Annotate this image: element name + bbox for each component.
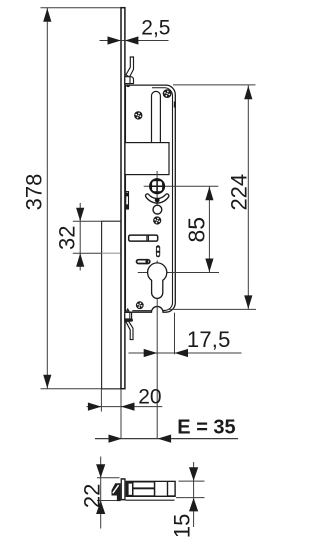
small horizontal capsule <box>137 260 150 264</box>
dimension 20 arrow right <box>88 403 102 411</box>
svg-text:17,5: 17,5 <box>187 327 231 352</box>
section faceplate bar <box>121 478 126 500</box>
section dim 15 bottom extension <box>176 497 205 499</box>
screw upper left <box>134 111 142 119</box>
auxiliary latch bottom cap <box>126 204 129 208</box>
section dim 15 arrow up <box>189 498 198 512</box>
section dim 22 arrow up <box>96 501 105 515</box>
auxiliary latch behind faceplate <box>126 192 129 209</box>
body cell upper slab <box>134 483 154 488</box>
bottom hook block divider <box>129 312 131 318</box>
lock case outline <box>125 85 175 312</box>
dimension 17,5 arrow right <box>144 349 158 357</box>
dimension 32 top extension line <box>73 220 102 222</box>
dimension 17,5 line <box>129 352 242 354</box>
faceplate extension line <box>120 389 122 439</box>
section dim 22 line <box>100 457 102 529</box>
dimension 2,5 arrow right <box>108 36 122 44</box>
screw below hub <box>153 216 161 224</box>
svg-text:224: 224 <box>226 174 251 211</box>
latch slot <box>152 91 161 142</box>
dimension 224 top extension line <box>173 84 256 86</box>
dimension 224 line <box>247 85 249 309</box>
dimension 85 arrow up <box>205 187 213 201</box>
backplate extension line left <box>100 389 102 411</box>
case edge dark notch <box>174 102 176 108</box>
faceplate <box>121 8 125 389</box>
body cell mid <box>155 482 167 496</box>
small vertical capsule <box>156 245 160 257</box>
latch bolt white stripe <box>113 485 119 493</box>
lock case inner wall bottom left <box>132 310 151 312</box>
svg-text:2,5: 2,5 <box>141 17 170 40</box>
dimension 378 bottom extension line <box>41 388 123 390</box>
wishbone pivot dot <box>155 198 160 203</box>
section dim 15 line <box>193 462 195 527</box>
dimension 20 arrow left <box>121 403 135 411</box>
dimension 378 line <box>46 8 48 389</box>
dimension 378 arrow up <box>43 8 51 22</box>
section dim 22 arrow down <box>96 464 105 478</box>
dimension E=35 arrow right <box>109 435 123 443</box>
top hook block <box>125 77 134 84</box>
dimension E=35 arrow left <box>158 435 172 443</box>
euro profile cylinder <box>148 263 167 298</box>
svg-text:E = 35: E = 35 <box>177 416 235 438</box>
top hook block divider <box>129 77 131 84</box>
faceplate bar white core <box>122 480 124 499</box>
svg-text:15: 15 <box>170 514 195 538</box>
dimension 378 top extension line <box>41 7 122 9</box>
svg-text:32: 32 <box>54 226 79 250</box>
top hook strip <box>126 57 134 77</box>
case back extension line <box>174 313 176 355</box>
dimension 17,5 arrow left <box>175 349 189 357</box>
screw top right <box>163 89 172 98</box>
follower hub <box>149 178 165 194</box>
dimension 2,5 line <box>100 40 169 42</box>
lock case inner wall right <box>152 88 173 311</box>
latch chamber <box>125 143 169 175</box>
dimension 85 line <box>208 186 210 272</box>
capsule white slit upper <box>157 248 159 251</box>
capsule white slit lower <box>157 253 159 256</box>
slide bar divider <box>146 235 148 241</box>
auxiliary latch top cap <box>126 193 129 197</box>
section latch bolt wedge <box>112 483 121 495</box>
cylinder vertical centerline <box>156 261 158 439</box>
section bottom step <box>126 499 175 501</box>
dimension 32 arrow up <box>76 253 84 267</box>
dimension 32 line <box>79 203 81 271</box>
backplate <box>102 221 121 389</box>
capsule dot <box>145 260 148 263</box>
dimension E=35 line <box>95 438 238 440</box>
dimension 224 bottom extension line <box>168 308 256 310</box>
bottom hook finger <box>126 321 133 339</box>
section dim 22 bottom extension <box>97 500 120 502</box>
screw bottom left <box>136 301 144 309</box>
section case body <box>126 481 176 497</box>
svg-text:22: 22 <box>80 484 105 508</box>
dimension 224 arrow up <box>244 86 252 100</box>
hub horizontal centerline / dim 85 top extension <box>144 185 219 187</box>
body cell lower slab <box>134 489 154 495</box>
svg-text:20: 20 <box>138 385 161 408</box>
dimension 32 arrow down <box>76 208 84 222</box>
dimension 2,5 arrow left <box>125 36 138 44</box>
cylinder horizontal centerline / dim 85 bottom extension <box>138 272 219 274</box>
hub vertical centerline <box>156 171 158 210</box>
body cell slit <box>129 484 132 495</box>
bottom hook block <box>125 312 132 321</box>
svg-text:85: 85 <box>183 217 209 243</box>
slide bar <box>129 235 158 241</box>
dimension 20 line <box>87 406 163 408</box>
small ring <box>153 205 162 214</box>
section dim 15 top extension <box>179 480 205 482</box>
spring wishbone <box>145 194 168 203</box>
bottom hook peak <box>127 309 129 311</box>
svg-text:378: 378 <box>22 174 47 211</box>
backplate divider line <box>102 252 121 254</box>
bottom hook dark band <box>125 318 133 321</box>
top hook nub <box>126 85 130 87</box>
dimension 224 arrow down <box>244 295 252 309</box>
section dim 15 arrow down <box>189 467 198 481</box>
latch bolt foot <box>117 496 121 502</box>
dimension 85 arrow down <box>205 259 213 273</box>
section dim 22 top extension <box>97 477 120 479</box>
dimension 32 bottom extension line <box>73 252 102 254</box>
dimension 378 arrow down <box>43 375 51 389</box>
body cell right <box>168 482 174 495</box>
